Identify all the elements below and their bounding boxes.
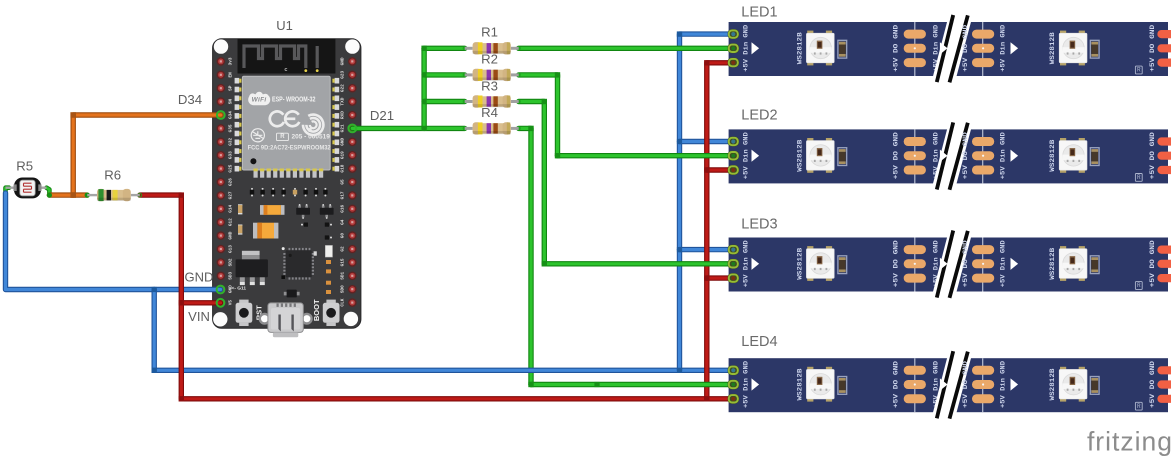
svg-text:LED2: LED2 (741, 108, 777, 124)
svg-text:R: R (280, 134, 285, 140)
svg-text:EN: EN (228, 72, 233, 78)
svg-text:G27: G27 (228, 191, 233, 199)
svg-text:SD3: SD3 (228, 271, 233, 279)
svg-text:G21: G21 (341, 124, 346, 132)
svg-text:WiFi: WiFi (252, 96, 267, 103)
svg-text:R1: R1 (481, 25, 498, 40)
svg-text:FCC 9D:2AC72-ESPWROOM32: FCC 9D:2AC72-ESPWROOM32 (248, 146, 332, 152)
svg-text:G26: G26 (228, 178, 233, 186)
svg-text:ESP- WROOM-32: ESP- WROOM-32 (272, 96, 316, 103)
svg-text:G25: G25 (228, 164, 233, 172)
svg-text:G35: G35 (228, 124, 233, 132)
svg-text:SD2: SD2 (228, 258, 233, 266)
svg-text:G19: G19 (341, 151, 346, 159)
svg-text:TXD: TXD (341, 97, 346, 105)
svg-text:R3: R3 (481, 78, 498, 93)
svg-text:G14: G14 (228, 204, 233, 212)
svg-text:c: c (284, 67, 287, 73)
svg-text:GND: GND (185, 270, 214, 285)
svg-text:D21: D21 (370, 108, 394, 123)
svg-text:G15: G15 (341, 258, 346, 266)
svg-text:G23: G23 (341, 70, 346, 78)
svg-text:G17: G17 (341, 191, 346, 199)
svg-text:G18: G18 (341, 164, 346, 172)
svg-text:R5: R5 (16, 159, 33, 174)
svg-text:G16: G16 (341, 204, 346, 212)
svg-text:V5: V5 (228, 300, 233, 306)
svg-text:D34: D34 (178, 92, 202, 107)
svg-text:U1: U1 (276, 18, 293, 33)
svg-text:G13: G13 (228, 245, 233, 253)
svg-text:G5: G5 (341, 179, 346, 185)
svg-text:<- G11: <- G11 (232, 286, 247, 292)
svg-text:GND: GND (228, 231, 233, 239)
svg-text:LED1: LED1 (741, 5, 777, 21)
svg-text:SN: SN (228, 99, 233, 105)
svg-text:R6: R6 (104, 168, 121, 183)
svg-text:GND: GND (341, 57, 346, 65)
svg-text:GND: GND (341, 137, 346, 145)
svg-text:fritzing: fritzing (1087, 427, 1171, 456)
svg-text:RXD: RXD (341, 111, 346, 119)
svg-text:GND: GND (228, 285, 233, 293)
svg-text:LED3: LED3 (741, 217, 777, 233)
svg-text:VIN: VIN (188, 309, 210, 324)
svg-text:G22: G22 (341, 84, 346, 92)
svg-text:205 - 000519: 205 - 000519 (292, 133, 331, 140)
svg-text:CLK: CLK (341, 298, 346, 306)
svg-text:G12: G12 (228, 218, 233, 226)
svg-text:SD0: SD0 (341, 285, 346, 293)
svg-text:LED4: LED4 (741, 334, 777, 350)
svg-text:BOOT: BOOT (312, 299, 321, 321)
svg-text:R4: R4 (481, 105, 498, 120)
svg-text:3v3: 3v3 (228, 57, 233, 65)
svg-text:G32: G32 (228, 137, 233, 145)
svg-text:G4: G4 (341, 219, 346, 225)
svg-text:R2: R2 (481, 52, 498, 67)
svg-text:SP: SP (228, 85, 233, 91)
svg-text:G33: G33 (228, 151, 233, 159)
svg-text:SD1: SD1 (341, 271, 346, 279)
svg-text:G34: G34 (228, 111, 233, 119)
svg-text:G0: G0 (341, 233, 346, 239)
svg-text:G2: G2 (341, 246, 346, 252)
